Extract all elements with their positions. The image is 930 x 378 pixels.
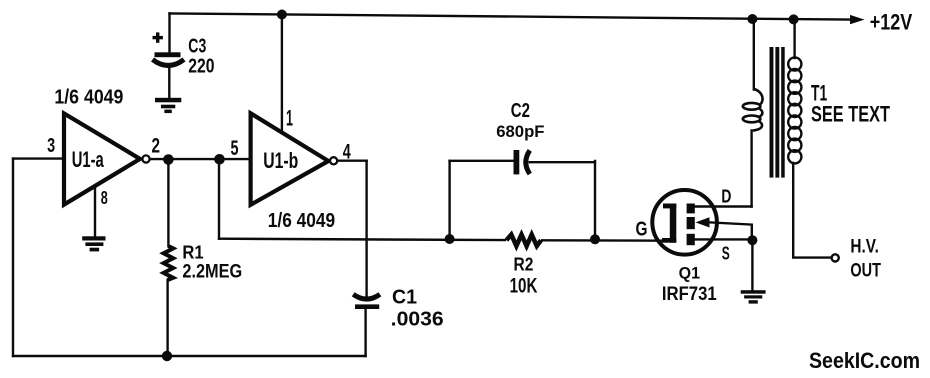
svg-text:C2: C2 [511, 100, 530, 122]
svg-text:SEE TEXT: SEE TEXT [811, 102, 890, 127]
svg-text:OUT: OUT [850, 260, 881, 281]
svg-text:G: G [636, 219, 648, 241]
svg-text:IRF731: IRF731 [662, 283, 717, 305]
svg-text:10K: 10K [510, 273, 538, 297]
svg-text:680pF: 680pF [496, 122, 544, 141]
svg-text:D: D [721, 186, 731, 206]
svg-text:U1-b: U1-b [263, 148, 298, 173]
svg-text:1/6 4049: 1/6 4049 [268, 210, 335, 232]
svg-text:2: 2 [152, 135, 161, 158]
svg-text:1/6 4049: 1/6 4049 [54, 86, 123, 108]
svg-text:C3: C3 [188, 35, 206, 57]
svg-text:8: 8 [101, 188, 108, 208]
svg-text:R2: R2 [514, 254, 534, 275]
svg-text:2.2MEG: 2.2MEG [182, 262, 242, 283]
svg-text:R1: R1 [182, 242, 203, 262]
svg-text:S: S [722, 244, 730, 264]
svg-text:Q1: Q1 [679, 264, 700, 283]
svg-text:4: 4 [343, 141, 351, 164]
svg-text:3: 3 [47, 135, 55, 157]
svg-text:C1: C1 [392, 287, 417, 309]
svg-text:1: 1 [286, 105, 293, 130]
svg-text:.0036: .0036 [391, 308, 444, 330]
svg-text:+12V: +12V [870, 9, 913, 34]
svg-text:H.V.: H.V. [850, 236, 879, 257]
svg-text:5: 5 [231, 137, 239, 160]
svg-text:220: 220 [188, 56, 214, 78]
svg-text:SeekIC.com: SeekIC.com [809, 348, 920, 373]
svg-text:U1-a: U1-a [72, 147, 105, 172]
